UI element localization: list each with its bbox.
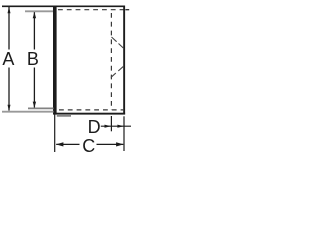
dimension A top arrowhead	[8, 7, 11, 13]
C extension line (from wall)	[54, 115, 56, 153]
inner bottom gray line (B reference, left of wall)	[28, 107, 54, 109]
D right arrowhead (pointing right)	[117, 125, 124, 128]
dimension B top arrowhead	[33, 12, 36, 18]
part top edge with A extension line	[2, 5, 125, 7]
dimension B line lower segment	[33, 68, 35, 108]
inner top gray line (B reference)	[25, 10, 54, 12]
dimension A bottom arrowhead	[8, 105, 11, 111]
label D	[88, 118, 101, 136]
C left arrowhead (pointing left)	[56, 142, 64, 146]
C right arrowhead (pointing right)	[116, 142, 124, 146]
label A	[2, 50, 14, 68]
dimension B bottom arrowhead	[33, 102, 36, 108]
dimension B line upper segment	[33, 12, 35, 49]
label B	[27, 50, 39, 68]
D left extension line (below part)	[110, 116, 112, 131]
part bottom edge	[53, 113, 125, 115]
hidden lower diagonal dashed	[111, 73, 116, 77]
C dimension line left segment	[56, 143, 79, 145]
dimension A line upper segment	[8, 7, 10, 50]
dimension A line lower segment	[8, 68, 10, 111]
small step line under bottom edge right of wall	[57, 115, 71, 117]
hidden bottom dashed line	[59, 109, 124, 111]
hidden top dash outside right edge	[125, 9, 129, 11]
hidden vertical dashed line (inner end face)	[110, 13, 112, 110]
hidden upper diagonal dashed	[112, 37, 117, 42]
D dimension line with tail	[101, 125, 131, 127]
C dimension line right segment	[97, 143, 124, 145]
outer bottom gray line (A reference)	[2, 111, 54, 113]
part closed-end wall (thick)	[53, 6, 57, 115]
label C	[82, 137, 95, 155]
hidden top dashed line	[58, 9, 125, 11]
D left arrowhead (outside, pointing right)	[105, 125, 112, 128]
part right edge	[123, 6, 125, 115]
C and D right extension line	[123, 116, 125, 151]
